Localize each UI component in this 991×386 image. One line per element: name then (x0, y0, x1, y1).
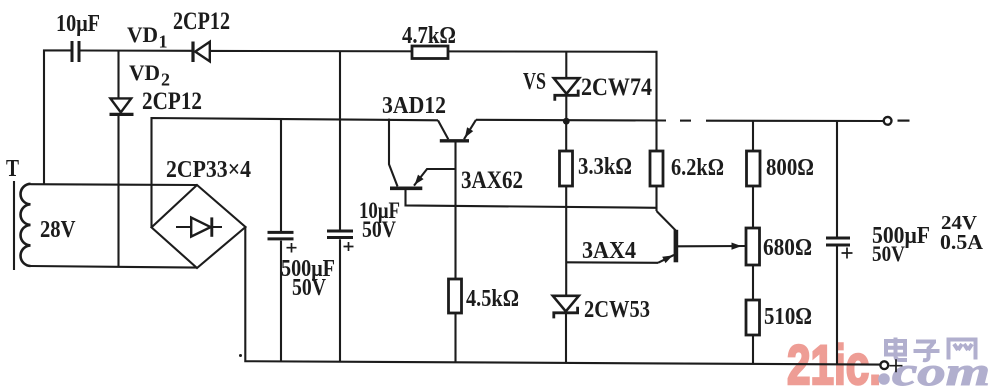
svg-text:VS: VS (523, 69, 546, 95)
svg-text:3AD12: 3AD12 (382, 93, 446, 119)
svg-text:800Ω: 800Ω (766, 155, 814, 181)
svg-text:2CP33×4: 2CP33×4 (166, 157, 251, 183)
svg-text:0.5A: 0.5A (940, 230, 984, 254)
svg-text:50V: 50V (292, 275, 327, 301)
svg-text:50V: 50V (362, 217, 396, 242)
svg-text:4.7kΩ: 4.7kΩ (402, 23, 456, 49)
svg-text:28V: 28V (40, 217, 76, 243)
svg-text:2CP12: 2CP12 (142, 88, 202, 115)
svg-text:21ic.: 21ic. (787, 333, 881, 386)
svg-text:T: T (6, 156, 19, 182)
svg-text:50V: 50V (872, 241, 905, 266)
svg-text:10μF: 10μF (56, 11, 100, 37)
svg-text:4.5kΩ: 4.5kΩ (466, 286, 519, 312)
svg-text:3AX62: 3AX62 (461, 167, 523, 194)
svg-text:3AX4: 3AX4 (582, 238, 636, 264)
svg-text:VD: VD (129, 60, 160, 85)
svg-text:2CW53: 2CW53 (584, 297, 650, 323)
svg-text:2: 2 (161, 70, 170, 90)
svg-text:2CP12: 2CP12 (173, 8, 230, 35)
svg-text:1: 1 (159, 32, 168, 52)
svg-text:3.3kΩ: 3.3kΩ (578, 154, 632, 180)
svg-text:VD: VD (127, 22, 158, 47)
svg-text:6.2kΩ: 6.2kΩ (671, 155, 724, 181)
svg-text:2CW74: 2CW74 (581, 74, 652, 101)
svg-text:510Ω: 510Ω (764, 304, 812, 330)
svg-text:680Ω: 680Ω (763, 235, 812, 261)
